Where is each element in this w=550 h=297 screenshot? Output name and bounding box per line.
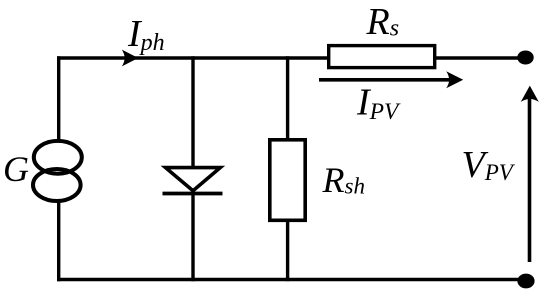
wire: bottom horizontal [57, 278, 521, 281]
svg-text:VPV: VPV [462, 144, 516, 186]
wire: diode branch upper [191, 56, 194, 169]
svg-text:G: G [3, 149, 29, 189]
wire: top horizontal right of Rs [436, 56, 521, 59]
svg-text:IPV: IPV [356, 82, 401, 126]
terminal node: top right dot [517, 51, 533, 65]
current source G (two overlapping ellipses) [33, 141, 82, 201]
svg-text:Iph: Iph [127, 13, 165, 56]
arrow IPV (line) [319, 78, 452, 82]
svg-text:Rs: Rs [366, 1, 400, 43]
svg-text:Rsh: Rsh [322, 160, 365, 200]
arrow IPV (head) [446, 71, 463, 88]
resistor Rsh (box) [270, 140, 305, 221]
wire: Rsh branch upper [286, 56, 289, 139]
diode cathode bar [163, 192, 223, 196]
resistor Rs (box) [329, 46, 435, 68]
wire: left vertical upper segment [57, 56, 60, 140]
wire: left vertical lower segment [57, 202, 60, 281]
arrow VPV (line) [528, 99, 532, 262]
terminal node: bottom right dot [517, 274, 534, 289]
arrow Iph (arrowhead on top wire) [122, 50, 138, 67]
wire: Rsh branch lower [286, 220, 289, 281]
wire: diode branch lower [191, 194, 194, 282]
diode D (triangle) [166, 168, 221, 191]
wire: top horizontal left of Rs [57, 56, 328, 59]
arrow VPV (head) [521, 86, 539, 102]
